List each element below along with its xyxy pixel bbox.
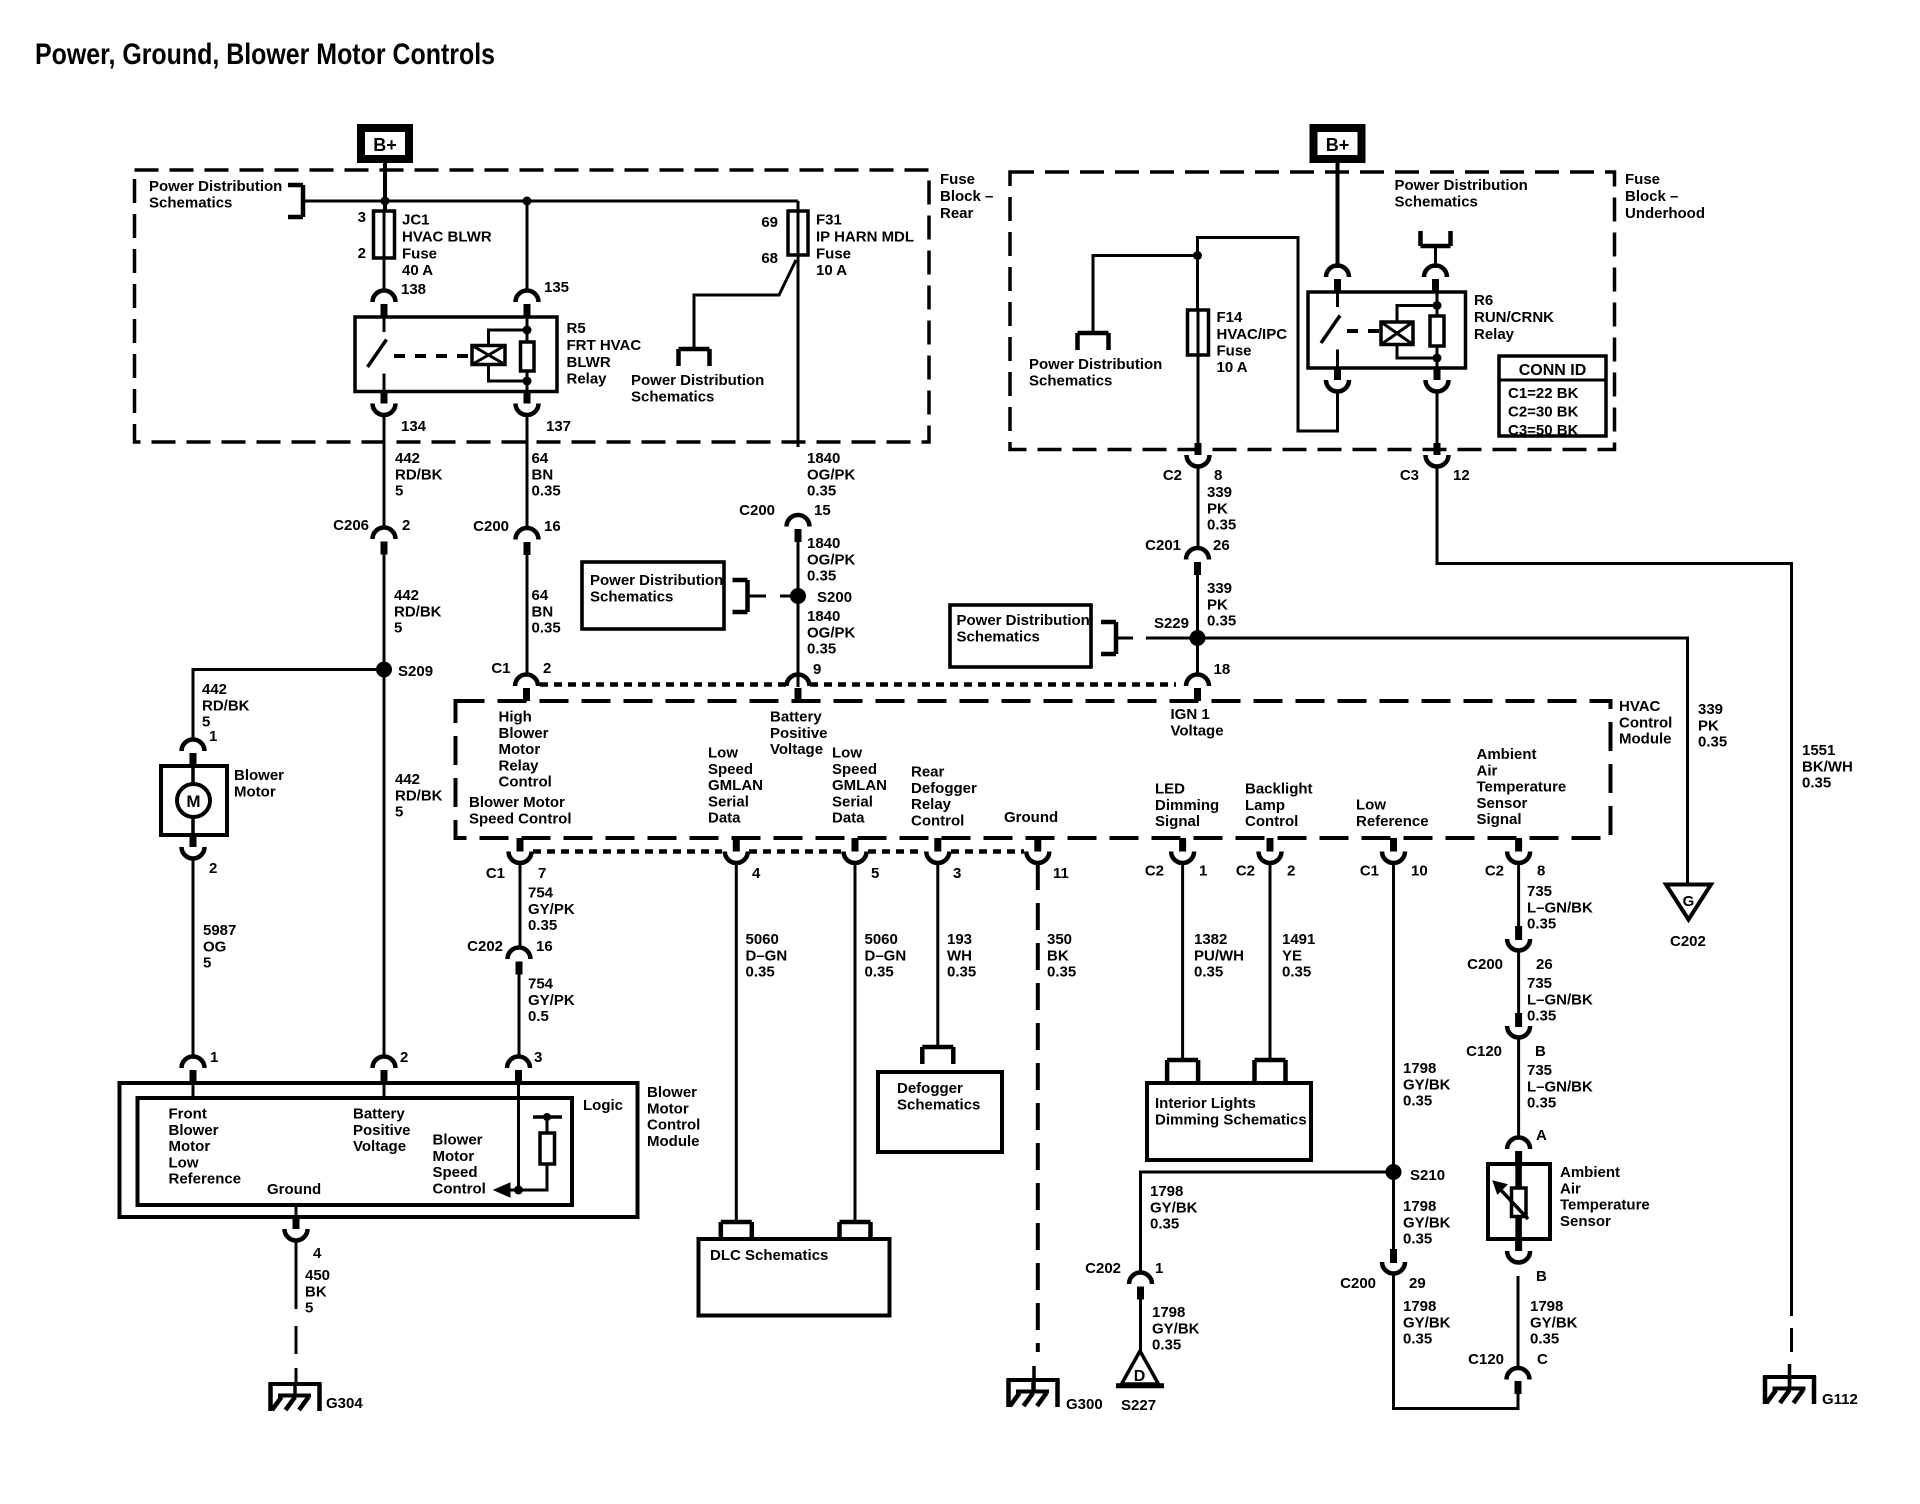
svg-text:GY/BK: GY/BK	[1403, 1314, 1451, 1331]
label Interior Lights Dimming Schematics	[1155, 1095, 1307, 1128]
blower motor control module outer box	[120, 1083, 638, 1217]
connector pin C2 2 from HVAC module (right group)	[1259, 838, 1282, 863]
connector pin 138 into relay R5	[373, 291, 396, 318]
svg-text:Schematics: Schematics	[897, 1096, 980, 1113]
label 1798 GY/BK 0.35 (to S227)	[1152, 1304, 1200, 1353]
HVAC module top connector face dotted line	[540, 682, 1176, 687]
svg-text:Voltage: Voltage	[353, 1138, 406, 1155]
svg-text:0.35: 0.35	[1530, 1331, 1559, 1348]
pin 26 label sensor chain	[1536, 956, 1553, 973]
wire sensor B to C120-C	[1517, 1276, 1520, 1368]
svg-text:1382: 1382	[1194, 931, 1227, 948]
relay R6 internal resistor	[1430, 316, 1444, 346]
svg-text:DLC Schematics: DLC Schematics	[710, 1247, 828, 1264]
label C120 (pinC)	[1468, 1351, 1504, 1368]
svg-text:C200: C200	[1467, 956, 1503, 973]
svg-text:D–GN: D–GN	[865, 947, 907, 964]
svg-text:Relay: Relay	[567, 371, 608, 388]
relay R6 switch	[1321, 292, 1340, 368]
svg-text:0.35: 0.35	[1403, 1231, 1432, 1248]
splice S200	[790, 588, 806, 604]
connector pin 1 into blower motor control module	[182, 1057, 205, 1084]
connector pin 5 from HVAC module (left group)	[844, 838, 867, 863]
svg-text:0.35: 0.35	[528, 917, 557, 934]
svg-text:1798: 1798	[1403, 1060, 1436, 1077]
connector pin C2 8 from HVAC module (right group)	[1507, 838, 1530, 863]
svg-text:C2: C2	[1236, 863, 1255, 880]
svg-text:OG/PK: OG/PK	[807, 624, 856, 641]
pin name Ambient Air Temperature Sensor Signal	[1477, 746, 1567, 828]
connector C202 pin 1	[1129, 1273, 1152, 1300]
ground G112	[1763, 1376, 1816, 1404]
label DLC Schematics	[710, 1247, 828, 1264]
svg-text:1: 1	[209, 728, 217, 745]
pin 29 label	[1409, 1275, 1426, 1292]
wire 5987 OG	[192, 859, 195, 1057]
label Fuse Block - Rear	[940, 171, 993, 222]
wire 450 BK to ground	[295, 1241, 298, 1385]
label 339 PK 0.35 (upper)	[1207, 484, 1236, 533]
label 1491 YE 0.35	[1282, 931, 1315, 980]
svg-text:0.35: 0.35	[1403, 1331, 1432, 1348]
pin 26 label C201	[1213, 537, 1230, 554]
connector C3 pin 12 from underhood fuse block	[1426, 443, 1449, 467]
svg-text:OG: OG	[203, 938, 226, 955]
svg-text:Defogger: Defogger	[897, 1080, 963, 1097]
svg-text:GY/BK: GY/BK	[1530, 1314, 1578, 1331]
connector pin 4 from HVAC module (left group)	[725, 838, 748, 863]
svg-text:C: C	[1537, 1351, 1548, 1368]
svg-text:442: 442	[395, 450, 420, 467]
svg-text:Underhood: Underhood	[1625, 205, 1705, 222]
svg-text:Motor: Motor	[234, 783, 276, 800]
svg-text:D: D	[1134, 1368, 1146, 1385]
bus wire from reference to fuse F31	[303, 201, 798, 212]
svg-text:RD/BK: RD/BK	[202, 697, 250, 714]
svg-text:5060: 5060	[746, 931, 779, 948]
svg-text:3: 3	[358, 209, 366, 226]
label 64 BN 0.35 (upper)	[532, 450, 561, 499]
label JC1 HVAC BLWR Fuse 40 A	[402, 212, 492, 279]
svg-text:D–GN: D–GN	[746, 947, 788, 964]
svg-text:Power, Ground, Blower Motor Co: Power, Ground, Blower Motor Controls	[35, 38, 495, 71]
svg-text:Temperature: Temperature	[1560, 1197, 1650, 1214]
pin labels C3 12	[1400, 467, 1470, 484]
svg-text:Blower: Blower	[169, 1122, 219, 1139]
svg-text:Control: Control	[647, 1117, 700, 1134]
junction at JC1	[381, 197, 390, 206]
label 1798 GY/BK 0.35 (below S210)	[1403, 1198, 1451, 1247]
svg-text:F31: F31	[816, 212, 842, 229]
pin 16 label C202	[536, 938, 553, 955]
svg-text:RD/BK: RD/BK	[395, 466, 443, 483]
svg-text:1840: 1840	[807, 450, 840, 467]
svg-text:0.35: 0.35	[807, 568, 836, 585]
HVAC control module dashed box	[456, 701, 1611, 838]
svg-text:Front: Front	[169, 1106, 207, 1123]
ambient air temperature sensor box	[1488, 1164, 1550, 1239]
svg-text:B+: B+	[1326, 135, 1350, 155]
svg-text:40 A: 40 A	[402, 262, 433, 279]
Defogger Schematics box	[878, 1072, 1002, 1152]
pin name LED Dimming Signal	[1155, 781, 1219, 830]
junction relay R5 coil top	[523, 326, 532, 335]
label 442 RD/BK 5 (lower)	[395, 771, 443, 820]
label 1840 OG/PK 0.35 (upper)	[807, 450, 856, 499]
svg-text:C202: C202	[1670, 933, 1706, 950]
svg-text:137: 137	[546, 418, 571, 435]
svg-text:S200: S200	[817, 589, 852, 606]
blower motor M circle	[177, 766, 210, 835]
svg-text:Power Distribution: Power Distribution	[957, 612, 1090, 629]
module internal resistor	[540, 1133, 555, 1164]
svg-text:Power Distribution: Power Distribution	[590, 572, 723, 589]
pin B label lower	[1536, 1268, 1547, 1285]
wire from B+ to bus	[383, 163, 387, 212]
svg-text:Power Distribution: Power Distribution	[149, 178, 282, 195]
svg-text:735: 735	[1527, 975, 1552, 992]
relay R5 linkage dashed	[394, 354, 470, 358]
pin 16 label	[544, 518, 561, 535]
label 442 RD/BK 5 (middle)	[394, 587, 442, 636]
svg-text:Motor: Motor	[169, 1138, 211, 1155]
connector C201 pin 26	[1186, 548, 1209, 575]
Interior Lights Dimming Schematics box	[1147, 1083, 1311, 1160]
svg-text:134: 134	[401, 418, 427, 435]
ground pin wire	[295, 1205, 298, 1217]
svg-text:Power Distribution: Power Distribution	[1029, 356, 1162, 373]
svg-text:0.35: 0.35	[807, 483, 836, 500]
label Defogger Schematics	[897, 1080, 980, 1113]
label Power Distribution Schematics (underhood top)	[1395, 177, 1528, 210]
svg-text:C120: C120	[1468, 1351, 1504, 1368]
fuse JC1 HVAC BLWR 40A	[374, 211, 395, 258]
svg-text:A: A	[1536, 1127, 1547, 1144]
connector into relay R6 coil	[1424, 266, 1447, 293]
svg-text:C200: C200	[1340, 1275, 1376, 1292]
svg-text:C1: C1	[491, 660, 510, 677]
fuse F14 HVAC/IPC 10A	[1188, 310, 1209, 355]
svg-text:Control: Control	[1619, 714, 1672, 731]
svg-text:0.35: 0.35	[1527, 1008, 1556, 1025]
pin name Ground (module)	[267, 1181, 321, 1198]
svg-text:0.35: 0.35	[1207, 517, 1236, 534]
svg-text:5: 5	[203, 955, 211, 972]
svg-text:442: 442	[202, 681, 227, 698]
off-page bracket interior lights left	[1167, 1060, 1198, 1083]
label Power Distribution Schematics (F14 branch)	[1029, 356, 1162, 389]
svg-text:2: 2	[358, 245, 366, 262]
svg-text:68: 68	[761, 250, 778, 267]
svg-text:69: 69	[761, 214, 778, 231]
svg-text:Lamp: Lamp	[1245, 797, 1285, 814]
svg-text:Dimming: Dimming	[1155, 797, 1219, 814]
label 5060 D-GN 0.35 (pin5)	[865, 931, 907, 980]
svg-text:4: 4	[752, 865, 761, 882]
svg-text:Low: Low	[169, 1154, 199, 1171]
ground reference triangle G	[1666, 885, 1711, 920]
Fuse Block - Underhood outline	[1010, 172, 1615, 450]
svg-text:Serial: Serial	[832, 793, 873, 810]
svg-text:10 A: 10 A	[1217, 359, 1248, 376]
connector C200 pin 16	[516, 528, 539, 555]
svg-text:Ambient: Ambient	[1477, 746, 1537, 763]
off-page bracket R6 coil feed	[1421, 231, 1451, 246]
svg-text:B+: B+	[373, 135, 397, 155]
svg-text:12: 12	[1453, 467, 1470, 484]
svg-text:C3=50 BK: C3=50 BK	[1508, 422, 1579, 439]
connector pin 135 into relay R5	[516, 291, 539, 318]
svg-text:Motor: Motor	[647, 1100, 689, 1117]
relay R5 internal resistor	[521, 342, 535, 371]
wire 350 BK dashed to G300	[1034, 863, 1038, 1392]
svg-text:0.35: 0.35	[1527, 1095, 1556, 1112]
ground G300	[1007, 1379, 1060, 1407]
pin name Rear Defogger Relay Control	[911, 764, 977, 830]
pin 3 label module	[534, 1049, 542, 1066]
svg-text:339: 339	[1698, 701, 1723, 718]
connector C200 pin 29	[1382, 1249, 1405, 1274]
connector pin 3 from HVAC module (left group)	[926, 838, 949, 863]
label 339 PK 0.35 (middle)	[1207, 580, 1236, 629]
junction relay R5 coil bottom	[523, 377, 532, 386]
label 1798 GY/BK 0.35 (C1-10)	[1403, 1060, 1451, 1109]
svg-text:S227: S227	[1121, 1397, 1156, 1414]
svg-text:C202: C202	[467, 938, 503, 955]
wire 339 PK upper	[1197, 467, 1200, 548]
svg-text:Schematics: Schematics	[149, 194, 232, 211]
pin 135 label	[544, 279, 569, 296]
svg-text:1798: 1798	[1530, 1298, 1563, 1315]
svg-text:Reference: Reference	[1356, 813, 1429, 830]
svg-text:Power Distribution: Power Distribution	[631, 372, 764, 389]
svg-text:Speed: Speed	[433, 1164, 478, 1181]
junction F14 branch	[1193, 251, 1202, 260]
svg-text:4: 4	[313, 1245, 322, 1262]
pin name Front Blower Motor Low Reference	[169, 1106, 242, 1188]
wire F14 branch to reference	[1093, 256, 1198, 334]
svg-text:0.35: 0.35	[746, 964, 775, 981]
svg-text:WH: WH	[947, 947, 972, 964]
connector pin C1 7 from HVAC module (left group)	[509, 838, 532, 863]
svg-text:Blower: Blower	[433, 1132, 483, 1149]
svg-text:Battery: Battery	[353, 1106, 405, 1123]
label 450 BK 5	[305, 1267, 330, 1316]
title: Power, Ground, Blower Motor Controls	[35, 38, 495, 71]
pin 2 label HVAC	[543, 660, 551, 677]
pin name Backlight Lamp Control	[1245, 781, 1313, 830]
wire bus to relay coil pin 135	[526, 201, 529, 291]
svg-text:0.35: 0.35	[865, 964, 894, 981]
svg-text:Schematics: Schematics	[1029, 372, 1112, 389]
connector pin 9 into HVAC module	[787, 675, 810, 702]
svg-text:0.35: 0.35	[1802, 775, 1831, 792]
svg-text:5: 5	[394, 620, 402, 637]
label 1551 BK/WH 0.35	[1802, 742, 1853, 791]
wire 754 GY/PK upper	[519, 863, 522, 948]
label S200	[817, 589, 852, 606]
svg-text:L–GN/BK: L–GN/BK	[1527, 991, 1593, 1008]
label 1798 GY/BK 0.35 (below C200-29)	[1403, 1298, 1451, 1347]
svg-text:G304: G304	[326, 1395, 363, 1412]
svg-text:JC1: JC1	[402, 212, 430, 229]
svg-text:8: 8	[1537, 863, 1545, 880]
svg-text:BN: BN	[532, 603, 554, 620]
svg-text:Logic: Logic	[583, 1097, 623, 1114]
wire 64 BN from pin 137	[526, 416, 529, 529]
svg-text:26: 26	[1213, 537, 1230, 554]
svg-text:10 A: 10 A	[816, 262, 847, 279]
svg-text:442: 442	[394, 587, 419, 604]
svg-text:BN: BN	[532, 466, 554, 483]
svg-text:GY/BK: GY/BK	[1150, 1199, 1198, 1216]
Fuse Block - Rear outline	[135, 170, 930, 442]
pin label 4	[752, 865, 761, 882]
wire S229 to HVAC ground triangle	[1205, 638, 1688, 885]
svg-text:R5: R5	[567, 320, 586, 337]
svg-text:GMLAN: GMLAN	[708, 777, 763, 794]
svg-text:5987: 5987	[203, 922, 236, 939]
svg-text:Block –: Block –	[940, 188, 993, 205]
wire 735 between C200 and C120	[1517, 951, 1520, 1013]
pin name Low Speed GMLAN Serial Data (2)	[832, 745, 887, 827]
connector pin 18 into HVAC module	[1186, 675, 1209, 702]
svg-text:Ambient: Ambient	[1560, 1164, 1620, 1181]
svg-text:193: 193	[947, 931, 972, 948]
svg-text:Defogger: Defogger	[911, 780, 977, 797]
connector pin 4 from module	[285, 1217, 308, 1241]
label S227	[1121, 1397, 1156, 1414]
svg-text:1798: 1798	[1403, 1198, 1436, 1215]
svg-text:C1: C1	[1360, 863, 1379, 880]
wire bracket to R6 coil pin	[1434, 246, 1437, 268]
svg-text:1: 1	[210, 1049, 218, 1066]
pin 138 label	[401, 281, 426, 298]
relay R6 RUN/CRNK box	[1308, 292, 1466, 368]
svg-text:Signal: Signal	[1477, 811, 1522, 828]
svg-text:PK: PK	[1207, 596, 1228, 613]
label C202 (pin16)	[467, 938, 503, 955]
svg-text:GY/PK: GY/PK	[528, 992, 575, 1009]
ground G304	[269, 1383, 322, 1411]
connector from relay R6 coil output	[1426, 368, 1449, 392]
off-page bracket F14 branch	[1078, 333, 1109, 350]
pin 2 label blower motor	[209, 860, 217, 877]
svg-text:Reference: Reference	[169, 1171, 242, 1188]
wire 1798 GY/BK from C1-10	[1392, 863, 1395, 1172]
svg-text:Air: Air	[1560, 1180, 1581, 1197]
svg-text:0.35: 0.35	[1282, 964, 1311, 981]
connector C2 pin 8 from underhood fuse block	[1187, 443, 1210, 467]
svg-text:Rear: Rear	[911, 764, 945, 781]
pin labels C1 7	[486, 865, 547, 882]
pin name Low Reference	[1356, 797, 1429, 830]
sensor thermistor	[1493, 1164, 1528, 1239]
svg-text:135: 135	[544, 279, 569, 296]
svg-text:C200: C200	[473, 518, 509, 535]
label 1798 GY/BK 0.35 (sensor side)	[1530, 1298, 1578, 1347]
pin 1 label C202	[1155, 1260, 1163, 1277]
label 735 L-GN/BK 0.35 (3)	[1527, 1062, 1593, 1111]
label C200 (pin15)	[739, 502, 775, 519]
wire 339 PK to S229	[1196, 575, 1199, 675]
connector C200 pin 26	[1507, 926, 1530, 951]
label S209	[398, 663, 433, 680]
svg-text:0.35: 0.35	[1194, 964, 1223, 981]
connector pin B from sensor	[1507, 1239, 1530, 1263]
label 1840 OG/PK 0.35 (third)	[807, 608, 856, 657]
svg-text:Voltage: Voltage	[1171, 722, 1224, 739]
label S210	[1410, 1167, 1445, 1184]
svg-text:Power Distribution: Power Distribution	[1395, 177, 1528, 194]
svg-text:G300: G300	[1066, 1396, 1103, 1413]
wire 1798 S210 down to C200-29	[1392, 1172, 1395, 1249]
connector C120 pin B upper	[1507, 1013, 1530, 1038]
svg-text:0.35: 0.35	[947, 964, 976, 981]
connector pin 1 into blower motor	[182, 740, 205, 766]
label G300	[1066, 1396, 1103, 1413]
off-page bracket interior lights right	[1255, 1060, 1286, 1083]
svg-text:1: 1	[1155, 1260, 1163, 1277]
svg-text:S229: S229	[1154, 615, 1189, 632]
pin name Low Speed GMLAN Serial Data (1)	[708, 745, 763, 827]
svg-text:Low: Low	[1356, 797, 1386, 814]
svg-text:Blower: Blower	[234, 767, 284, 784]
connector pin 2 from blower motor	[182, 835, 205, 859]
svg-text:0.35: 0.35	[1047, 964, 1076, 981]
fuse F31 IP HARN MDL 10A	[788, 211, 808, 255]
svg-text:C201: C201	[1145, 537, 1181, 554]
label 442 RD/BK 5 (motor branch)	[202, 681, 250, 730]
pin 9 label	[813, 661, 821, 678]
svg-text:2: 2	[1287, 863, 1295, 880]
svg-text:5: 5	[305, 1300, 313, 1317]
pin name Blower Motor Speed Control	[469, 794, 572, 827]
svg-text:PK: PK	[1698, 717, 1719, 734]
svg-text:CONN ID: CONN ID	[1519, 362, 1587, 379]
off-page bracket to S200	[733, 580, 748, 612]
connector pin 137 from relay R5	[516, 392, 539, 416]
wire 735 to sensor pin A	[1517, 1038, 1520, 1138]
label 339 PK 0.35 (right)	[1698, 701, 1727, 750]
wire 442 RD/BK C206 to S209	[383, 555, 386, 670]
label R6 RUN/CRNK Relay	[1474, 292, 1554, 343]
svg-text:Positive: Positive	[353, 1122, 411, 1139]
svg-text:C202: C202	[1085, 1260, 1121, 1277]
blower motor box	[161, 766, 227, 835]
svg-text:L–GN/BK: L–GN/BK	[1527, 899, 1593, 916]
svg-text:Relay: Relay	[1474, 326, 1515, 343]
svg-text:C1=22 BK: C1=22 BK	[1508, 385, 1579, 402]
svg-text:Sensor: Sensor	[1477, 795, 1528, 812]
connector into relay R6 switch	[1326, 266, 1349, 293]
wire from B+ to relay R6	[1336, 163, 1340, 268]
label C201	[1145, 537, 1181, 554]
label Blower Motor	[234, 767, 284, 800]
label 350 BK 0.35	[1047, 931, 1076, 980]
label C206	[333, 517, 369, 534]
wire 1840 below fuse F31	[797, 255, 800, 447]
svg-text:0.35: 0.35	[1527, 916, 1556, 933]
label Blower Motor Control Module	[647, 1084, 700, 1150]
svg-text:26: 26	[1536, 956, 1553, 973]
svg-text:15: 15	[814, 502, 831, 519]
label F14 HVAC/IPC Fuse 10 A	[1217, 309, 1288, 376]
svg-text:1491: 1491	[1282, 931, 1315, 948]
splice S229	[1190, 630, 1206, 646]
svg-text:Air: Air	[1477, 762, 1498, 779]
module internal node	[533, 1113, 562, 1133]
